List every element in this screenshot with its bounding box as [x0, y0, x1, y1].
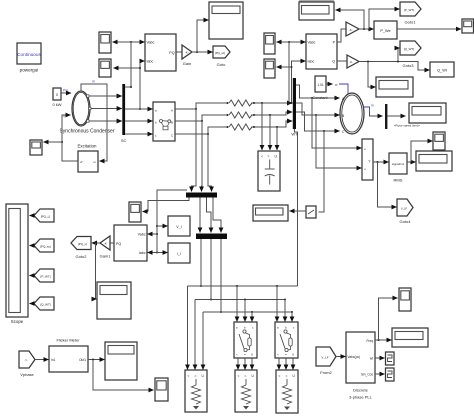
scope ScopeG [462, 19, 474, 33]
svg-text:vf: vf [80, 160, 83, 164]
small block (unit) [306, 206, 316, 218]
svg-text:Vabc: Vabc [308, 41, 316, 45]
svg-text:Scope: Scope [11, 319, 24, 324]
bus SC [121, 84, 127, 143]
flicker meter block [49, 346, 88, 372]
svg-text:-K-: -K- [350, 60, 354, 64]
wire row3 breaker to line [175, 126, 229, 135]
svg-text:m: m [371, 104, 374, 108]
scope Scope1 [99, 32, 111, 53]
wire to ScopeI [379, 298, 398, 340]
svg-text:Sin_Cos: Sin_Cos [361, 373, 373, 377]
svg-text:Continuous: Continuous [17, 52, 41, 57]
terminator T1 [386, 352, 395, 365]
from tag Vphase [19, 351, 35, 377]
wire small block to Display5 [290, 210, 307, 212]
to-workspace block P_We [374, 21, 397, 39]
wires breaker B2 to load2 [238, 358, 252, 370]
svg-text:Goto1: Goto1 [405, 20, 417, 25]
wire tap to PQ3 Vabc [148, 233, 158, 235]
wire Vphase to flicker [35, 359, 49, 361]
wires rails down to breaker B2 [237, 286, 252, 322]
measurement block PQ2 (Vabc Iabc to P Q) [306, 34, 337, 69]
shunt capacitor load block [258, 151, 280, 191]
svg-text:Vabc(pu): Vabc(pu) [348, 355, 361, 359]
svg-text:Gain: Gain [183, 61, 191, 66]
svg-text:Goto3: Goto3 [403, 63, 415, 68]
wire to Scope2 [114, 61, 141, 68]
resistor line R phase A [229, 100, 252, 106]
wire to ScopeH [44, 141, 63, 143]
svg-text:<: < [279, 374, 281, 378]
svg-text:<: < [238, 374, 240, 378]
wire bus SC to PQ1 Iabc [139, 61, 145, 110]
svg-text:-K-: -K- [349, 28, 353, 32]
wire PQ1 to Gain [176, 51, 182, 53]
svg-text:[P_WT]: [P_WT] [40, 274, 50, 278]
svg-text:Freq: Freq [366, 339, 373, 343]
wire bus WT to machine A [296, 85, 340, 99]
goto tag [P_WT] Goto1 [400, 2, 421, 25]
wire 0kW to Pm [61, 89, 71, 94]
PLL block [346, 332, 375, 400]
terminator T2 [386, 368, 395, 381]
wire RMS to Display4 [407, 161, 416, 163]
wire bus WT down to rail1 [294, 129, 297, 286]
wire flicker to Display6 [88, 359, 105, 361]
svg-text:1.01: 1.01 [317, 83, 324, 87]
wire row2 to bus WT [251, 112, 292, 116]
wire bus WT to machine B [296, 103, 340, 116]
svg-text:Goto4: Goto4 [400, 219, 412, 224]
wires machine ABC to bus SC [89, 96, 122, 121]
wire to Display2 [368, 62, 376, 88]
constant 0 kW [52, 88, 61, 107]
load block L3 (R with ground) [276, 370, 298, 413]
wire wt to terminator1 [375, 357, 385, 359]
wire row1 down to bus bar1 [192, 109, 197, 192]
gain Gain2 [346, 22, 359, 36]
svg-text:-K-: -K- [185, 51, 189, 55]
wire to ScopeJ [93, 360, 154, 391]
wire selector to Display3 [387, 116, 420, 128]
scope Scope (tall) [6, 204, 28, 324]
breaker block B3 [275, 322, 298, 358]
svg-text:0: 0 [56, 93, 58, 97]
bus bar B1 [186, 193, 217, 198]
svg-text:Q: Q [332, 60, 335, 64]
wires bus SC to breaker abc [125, 109, 152, 134]
svg-text:U: U [251, 353, 253, 357]
svg-text:<: < [277, 353, 279, 357]
wire bus WT to machine C [296, 112, 340, 132]
mux Y [362, 139, 373, 180]
wire machine C junction to meanblock [319, 131, 325, 212]
display Display4 [416, 151, 452, 171]
wire to Display9 [96, 243, 97, 299]
display Display5 [253, 205, 288, 221]
wire m to selector [370, 112, 383, 116]
wire bus WT to PQ2 Vabc [288, 41, 306, 104]
display Display1 [299, 0, 334, 20]
svg-text:-K-: -K- [104, 242, 108, 246]
svg-text:[PQ_L]: [PQ_L] [78, 242, 87, 246]
display Display3 [409, 103, 446, 123]
load block L2 (R with ground) [235, 370, 257, 412]
wire to ScopeE [411, 141, 433, 162]
wire vertical to measurement taps [156, 190, 187, 254]
gain Gain3 [347, 55, 359, 68]
powergui block [17, 43, 42, 73]
svg-text:m: m [92, 80, 95, 84]
wire mux to RMS [373, 161, 389, 163]
wire to ScopeD [277, 66, 292, 68]
wire row3 down to bus bar1 [208, 134, 212, 192]
wire 1.01 to w [326, 83, 338, 87]
wire Sin_Cos to terminator2 [375, 373, 385, 375]
wires rails down to breaker B3 [277, 286, 292, 322]
wires breaker B3 to load3 [279, 358, 293, 370]
wire m (machine top to excitation) [81, 80, 107, 162]
wire to ScopeK [143, 211, 149, 213]
svg-text:From2: From2 [320, 370, 332, 375]
svg-text:RMS: RMS [394, 178, 403, 183]
goto tag [PQ_sc] Goto [213, 46, 230, 67]
svg-text:V_LF: V_LF [401, 206, 408, 210]
bus WT [291, 78, 298, 137]
wire Freq to Display7 [375, 339, 392, 341]
scope ScopeJ [155, 378, 168, 401]
svg-text:Excitation: Excitation [77, 144, 97, 149]
wire drop row2 to shunt load [269, 115, 271, 150]
wire to Display1 [336, 10, 365, 29]
svg-text:U: U [292, 353, 294, 357]
rail junctions [236, 285, 293, 313]
svg-text:In1: In1 [51, 358, 56, 362]
wire to goto P_WT [369, 9, 400, 29]
wire Gain to Goto [192, 51, 213, 53]
wire row1 to bus WT [251, 102, 292, 104]
from tag V_LF From2 [316, 347, 336, 375]
resistor line R phase C [229, 124, 252, 130]
svg-text:=: = [286, 374, 288, 378]
svg-text:B: B [171, 121, 173, 125]
svg-text:=: = [268, 155, 270, 159]
three-phase breaker B1 [153, 102, 175, 141]
svg-text:V_LF: V_LF [321, 355, 328, 359]
to-workspace block I_I [168, 243, 190, 263]
svg-text:V_I: V_I [176, 225, 181, 229]
wire tap to I_I [157, 252, 168, 254]
wire row3 to bus WT [251, 121, 292, 128]
svg-text:signalrms: signalrms [392, 162, 405, 166]
svg-text:Goto2: Goto2 [76, 254, 88, 259]
to-workspace block Q_Wt [430, 62, 454, 77]
svg-text:Iabc: Iabc [147, 60, 154, 64]
svg-text:[PQ_L]: [PQ_L] [41, 214, 51, 218]
svg-text:<: < [236, 353, 238, 357]
svg-text:Vabc: Vabc [138, 233, 146, 237]
scope ScopeC [264, 33, 275, 54]
svg-text:PQ: PQ [169, 51, 174, 55]
from tag [PQ_L] [30, 209, 55, 222]
gain Gain1 (left facing) [100, 236, 111, 259]
excitation block [78, 151, 98, 172]
svg-text:Vabc: Vabc [147, 41, 155, 45]
display Display2 [376, 77, 413, 97]
wire to ScopeF [197, 20, 209, 52]
from tag [Q_WT] [30, 297, 55, 310]
wire vf to machine [61, 115, 78, 161]
svg-text:=: = [195, 374, 197, 378]
rail phase C [203, 311, 292, 313]
scope ScopeI [399, 288, 411, 311]
wire gain2 out junctions [359, 28, 374, 30]
svg-text:SC: SC [121, 138, 127, 143]
wire drop row1 to shunt load [261, 103, 263, 150]
svg-text:Vphase: Vphase [20, 372, 34, 377]
display Display7 [392, 328, 428, 347]
wire machine B junction to mux in2 [316, 115, 362, 168]
scope ScopeF (big) [209, 2, 243, 39]
wire to ScopeC [277, 41, 290, 43]
svg-text:w: w [335, 83, 338, 87]
svg-text:A: A [171, 109, 173, 113]
svg-text:Iabc: Iabc [308, 60, 315, 64]
display Display6 [105, 342, 137, 380]
wire PQ3 to Gain1 [111, 242, 115, 244]
svg-text:<: < [188, 374, 190, 378]
wire row2 down to bus bar1 [201, 121, 204, 192]
svg-text:Discrete: Discrete [353, 388, 368, 393]
scope ScopeD [264, 59, 275, 78]
svg-text:[Q_WT]: [Q_WT] [40, 302, 50, 306]
RMS block [389, 153, 407, 183]
wire to Goto4 [378, 162, 397, 207]
scope ScopeE [433, 132, 445, 150]
svg-text:=: = [245, 374, 247, 378]
wires bar1 to bar2 [200, 198, 221, 233]
svg-text:wt: wt [370, 357, 373, 361]
wire row2 breaker to line [175, 114, 229, 122]
wire gain3 out [359, 61, 430, 71]
from tag [PQ_sc] [30, 239, 55, 252]
wire Q to gain3 [337, 60, 347, 62]
svg-text:PQ: PQ [116, 242, 121, 246]
svg-text:Gain1: Gain1 [100, 254, 111, 259]
goto tag [Q_WT] Goto3 [400, 41, 421, 68]
bus selector [385, 104, 387, 129]
breaker block B2 [234, 322, 257, 358]
goto tag Goto4 [397, 199, 413, 224]
wire to goto Q_WT [398, 48, 400, 62]
svg-text:+: + [364, 168, 366, 172]
measurement block PQ1 (Vabc Iabc to PQ) [145, 34, 176, 71]
bus bar B2 [196, 234, 227, 240]
svg-text:=: = [244, 353, 246, 357]
svg-text:=: = [285, 353, 287, 357]
wire to Scope1 [113, 41, 133, 43]
wire tap to PQ3 Iabc [148, 252, 158, 254]
wire machine m to bus selector (blue stub) [364, 104, 374, 113]
gain Gain [182, 45, 192, 66]
svg-text:<Rotor speed (wm)>: <Rotor speed (wm)> [394, 124, 421, 128]
wire From2 to PLL [336, 356, 346, 358]
svg-text:Goto: Goto [217, 62, 226, 67]
svg-text:Flicker Meter: Flicker Meter [56, 338, 80, 343]
wire row1 breaker to line [175, 102, 229, 110]
svg-text:P_We: P_We [380, 29, 390, 33]
asynchronous machine WT [340, 93, 364, 134]
wire Gain1 to Goto2 [92, 242, 100, 244]
to-workspace block V_I [168, 216, 190, 236]
load block L1 (R with ground) [185, 370, 207, 412]
svg-text:Pm: Pm [63, 89, 68, 93]
wire drop row3 to shunt load [276, 127, 278, 150]
svg-text:[Q_WT]: [Q_WT] [404, 47, 414, 51]
svg-text:Iabc: Iabc [139, 251, 146, 255]
from tag [P_WT] [30, 269, 55, 282]
svg-text:[PQ_sc]: [PQ_sc] [215, 51, 225, 55]
scope ScopeK [129, 202, 141, 222]
goto tag [PQ_L] Goto2 [71, 237, 91, 260]
constant 1.01 [312, 76, 328, 100]
wire bus WT to PQ2 Iabc [291, 61, 306, 104]
svg-text:-?-: -?- [24, 358, 27, 362]
wire P_We to ScopeG [397, 28, 461, 30]
svg-text:Q_Wt: Q_Wt [437, 69, 448, 73]
display Display9 [97, 282, 131, 319]
scope Scope2 [99, 59, 111, 77]
wire machine A junction to mux in1 [312, 98, 362, 148]
wire bar1 to V-I zone [148, 198, 189, 212]
svg-text:+: + [364, 148, 366, 152]
wire tap to V_I [157, 225, 168, 227]
measurement block PQ3 [114, 225, 147, 261]
scope ScopeH [30, 140, 42, 155]
svg-text:[PQ_sc]: [PQ_sc] [40, 244, 51, 248]
svg-text:0 kW: 0 kW [52, 102, 61, 107]
wires bar2 down to rails [200, 239, 222, 313]
svg-text:<: < [261, 155, 263, 159]
svg-text:I_I: I_I [177, 252, 181, 256]
wires rails down to load1 [188, 286, 204, 370]
svg-text:powergui: powergui [20, 68, 39, 73]
wire w to machine (blue) [339, 84, 348, 94]
rail phase B [195, 299, 285, 301]
svg-text:3-phase PLL: 3-phase PLL [349, 395, 372, 400]
wire P to gain2 [337, 29, 346, 42]
synchronous condenser machine SC [63, 91, 91, 126]
svg-text:[P_WT]: [P_WT] [404, 8, 414, 12]
rail phase A [188, 285, 298, 287]
resistor line R phase B [229, 112, 252, 118]
wire bus SC to PQ1 Vabc [125, 42, 144, 88]
svg-text:Out1: Out1 [79, 358, 86, 362]
